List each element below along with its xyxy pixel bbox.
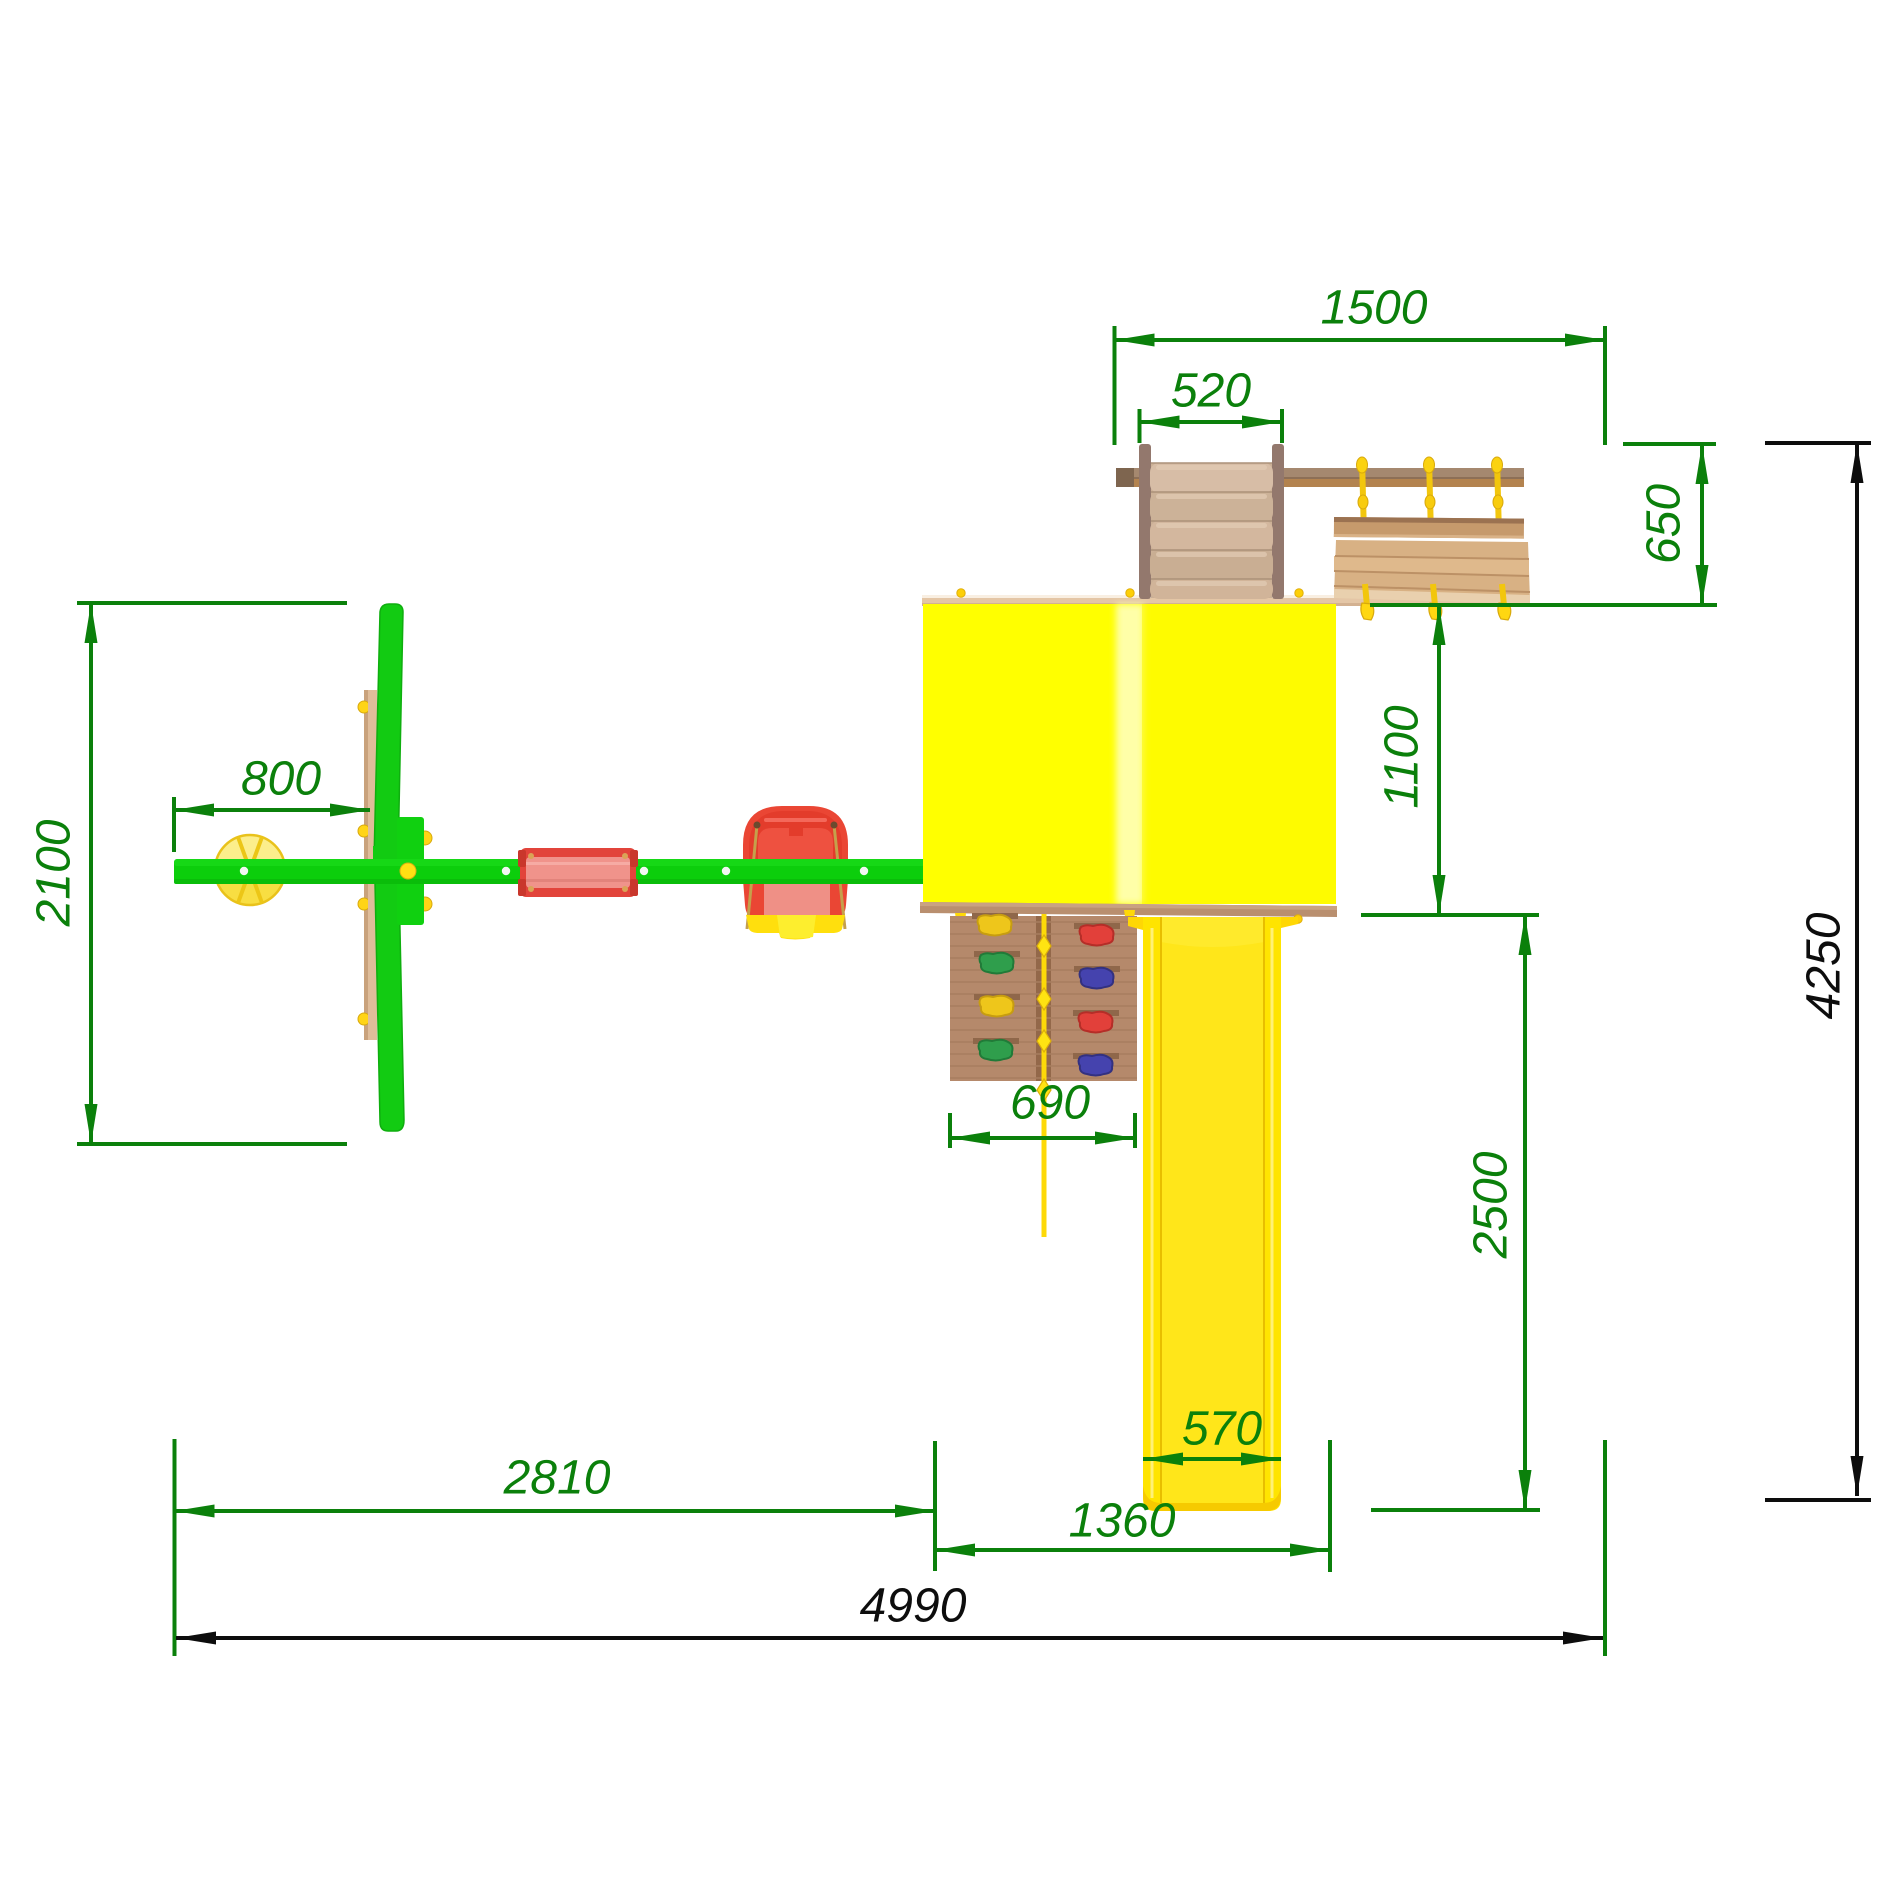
svg-text:2810: 2810 bbox=[503, 1452, 611, 1505]
beam bolt white bbox=[860, 867, 868, 875]
baby swing bbox=[743, 806, 848, 940]
disc swing bbox=[215, 835, 285, 905]
A-frame bottom leg bbox=[375, 883, 404, 1131]
roof bolt bbox=[1126, 589, 1134, 597]
rope knot bbox=[1037, 1030, 1051, 1052]
dim 690 ext left bbox=[948, 1113, 952, 1148]
dim 2500 line bbox=[1523, 915, 1527, 1510]
svg-text:2500: 2500 bbox=[1465, 1151, 1518, 1259]
dim 2100 ref bottom bbox=[77, 1142, 347, 1146]
dim 4250 line bbox=[1855, 443, 1859, 1496]
dim 650 ref bottom bbox=[1370, 603, 1717, 607]
beam bolt white bbox=[640, 867, 648, 875]
ext tick 2810 bbox=[933, 1441, 937, 1571]
svg-text:800: 800 bbox=[241, 753, 321, 806]
svg-text:1500: 1500 bbox=[1321, 282, 1428, 335]
ext tick far left bbox=[173, 1439, 177, 1656]
plank bolt bbox=[358, 1013, 370, 1025]
dim 650 ref top bbox=[1623, 442, 1716, 446]
dim 2500 ref bottom bbox=[1371, 1508, 1540, 1512]
wall hanger bolt bbox=[955, 913, 966, 934]
hold yellow 1 bbox=[972, 913, 1018, 919]
rope knot bbox=[1037, 988, 1051, 1010]
roof ridge stripe bbox=[1116, 604, 1144, 904]
beam bolt yellow bbox=[400, 863, 416, 879]
roof right pane tint bbox=[1142, 604, 1336, 904]
dim 2100 line bbox=[89, 603, 93, 1144]
svg-text:2100: 2100 bbox=[28, 819, 81, 927]
ext tick 1360 bbox=[1328, 1440, 1332, 1572]
dim 690 ext right bbox=[1133, 1113, 1137, 1148]
dim 650 line bbox=[1700, 444, 1704, 605]
flat swing seat bbox=[518, 848, 638, 897]
roof bolt bbox=[1295, 589, 1303, 597]
roof bolt bbox=[957, 589, 965, 597]
dim 4250 ref bottom bbox=[1765, 1498, 1871, 1502]
dim 2810 line bbox=[175, 1509, 936, 1513]
beam bolt white bbox=[502, 867, 510, 875]
hold blue 1 bbox=[1074, 966, 1120, 972]
dim 1100 line bbox=[1437, 605, 1441, 915]
dim 1100 ref bottom bbox=[1361, 913, 1539, 917]
slide bbox=[1128, 917, 1298, 1511]
dim 4250 ref top bbox=[1765, 441, 1871, 445]
roof bottom bolt bbox=[1294, 915, 1302, 923]
A-frame crossbar block bbox=[397, 817, 424, 925]
A-frame wooden plank bbox=[364, 690, 377, 1040]
A-frame top leg foot bbox=[373, 846, 399, 860]
bench rope upper bbox=[1357, 457, 1369, 535]
wall hanger bolt 2 bbox=[1124, 910, 1135, 931]
ramp left rail bbox=[1139, 444, 1151, 599]
beam bolt white 1 bbox=[240, 867, 248, 875]
dim 1500 ext left bbox=[1113, 326, 1117, 445]
bench rope upper bbox=[1424, 457, 1436, 535]
hold green 1 bbox=[974, 951, 1020, 957]
crossbar bolt lower bbox=[418, 897, 432, 911]
bench rope upper bbox=[1492, 457, 1504, 535]
plank bolt bbox=[358, 898, 370, 910]
dim 520 ext right bbox=[1280, 409, 1284, 443]
dim 520 line bbox=[1140, 420, 1283, 424]
dim 1500 ext right bbox=[1603, 326, 1607, 445]
hold red 1 bbox=[1074, 923, 1120, 929]
svg-text:570: 570 bbox=[1182, 1403, 1262, 1456]
A-frame top leg bbox=[374, 604, 403, 860]
bench seat slats bbox=[1334, 540, 1530, 604]
svg-text:650: 650 bbox=[1638, 484, 1691, 564]
plank front face bbox=[368, 690, 377, 1040]
svg-text:4990: 4990 bbox=[860, 1580, 967, 1633]
svg-text:4250: 4250 bbox=[1798, 912, 1851, 1019]
roof bottom strip bbox=[920, 902, 1337, 917]
rope knot bbox=[1037, 935, 1051, 957]
hold red 2 bbox=[1073, 1010, 1119, 1016]
svg-text:1360: 1360 bbox=[1069, 1495, 1176, 1548]
dim 1500 line bbox=[1115, 338, 1606, 342]
top beam bbox=[1116, 468, 1524, 487]
dim 570 line bbox=[1143, 1457, 1281, 1461]
dim 800 ext left bbox=[172, 797, 176, 852]
ext tick right bbox=[1603, 1440, 1607, 1656]
climbing wall bbox=[950, 916, 1137, 1081]
dim 1360 line bbox=[935, 1548, 1330, 1552]
hold blue 2 bbox=[1073, 1053, 1119, 1059]
bench back slat bbox=[1334, 517, 1524, 539]
swing beam bbox=[174, 859, 926, 884]
bench rope knot bbox=[1498, 584, 1511, 620]
rope knot bbox=[1037, 1079, 1051, 1101]
hold yellow 2 bbox=[974, 994, 1020, 1000]
svg-text:520: 520 bbox=[1171, 365, 1251, 418]
ramp right rail bbox=[1272, 444, 1284, 599]
climbing wall boards bbox=[950, 922, 1137, 1078]
svg-text:1100: 1100 bbox=[1376, 705, 1429, 809]
plank bolt bbox=[358, 825, 370, 837]
dim 690 line bbox=[950, 1136, 1135, 1140]
tower roof bbox=[923, 604, 1336, 904]
dim 520 ext left bbox=[1138, 409, 1142, 443]
crossbar bolt upper bbox=[418, 831, 432, 845]
hold green 2 bbox=[973, 1038, 1019, 1044]
ramp slats bbox=[1150, 463, 1273, 599]
dim 800 line bbox=[174, 808, 370, 812]
dim 2100 ref top bbox=[77, 601, 347, 605]
beam bolt white bbox=[722, 867, 730, 875]
dim 4990 line bbox=[176, 1636, 1603, 1640]
bench rope knot bbox=[1361, 584, 1374, 620]
climbing rope bbox=[1042, 914, 1047, 1237]
tower platform strip bbox=[922, 595, 1530, 606]
svg-text:690: 690 bbox=[1010, 1077, 1090, 1130]
plank bolt bbox=[358, 701, 370, 713]
bench rope knot bbox=[1429, 584, 1442, 620]
